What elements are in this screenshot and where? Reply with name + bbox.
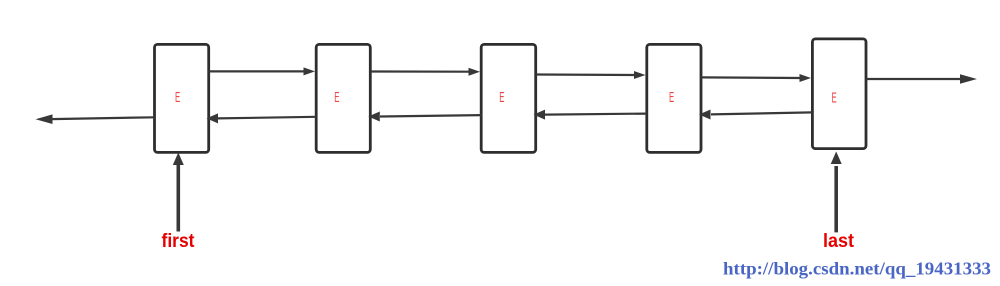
svg-text:last: last [823, 231, 855, 252]
svg-text:E: E [175, 89, 180, 106]
svg-text:first: first [162, 231, 196, 252]
svg-text:E: E [334, 89, 339, 106]
svg-text:http://blog.csdn.net/qq_194313: http://blog.csdn.net/qq_19431333 [723, 259, 991, 279]
svg-text:E: E [832, 90, 837, 107]
svg-text:E: E [669, 89, 674, 106]
svg-text:E: E [499, 89, 504, 106]
